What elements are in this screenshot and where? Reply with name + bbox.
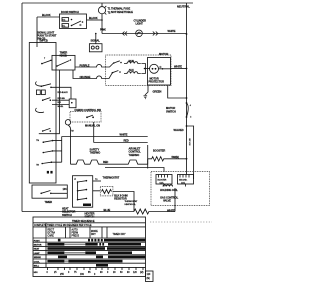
svg-text:NEUTRAL: NEUTRAL <box>177 5 190 9</box>
svg-text:TIMER: TIMER <box>45 200 53 204</box>
svg-text:L1: L1 <box>74 179 76 181</box>
svg-text:HOLDING COIL: HOLDING COIL <box>160 188 178 192</box>
svg-text:WHITE: WHITE <box>168 29 176 33</box>
svg-text:THERMO: THERMO <box>90 151 101 155</box>
svg-text:BELL: BELL <box>34 266 40 268</box>
svg-text:SECOND.: SECOND. <box>179 180 188 182</box>
svg-text:LAMP: LAMP <box>34 252 41 255</box>
svg-text:MOTOR: MOTOR <box>166 106 175 110</box>
svg-text:HEATING EL.: HEATING EL. <box>125 203 137 206</box>
svg-text:RED-WH: RED-WH <box>58 98 66 100</box>
svg-text:MOTOR: MOTOR <box>159 52 168 56</box>
svg-text:COIL: COIL <box>181 182 185 184</box>
svg-text:(M): (M) <box>147 278 151 280</box>
svg-text:CARE: CARE <box>48 235 55 238</box>
svg-text:VALVE: VALVE <box>163 199 171 203</box>
svg-text:RED: RED <box>103 160 108 164</box>
svg-text:C: C <box>80 23 82 27</box>
svg-text:DRY: DRY <box>91 234 96 236</box>
svg-text:TIMED DRY: TIMED DRY <box>113 233 127 236</box>
svg-text:AUTO: AUTO <box>72 229 78 232</box>
svg-text:BLACK: BLACK <box>42 13 51 17</box>
svg-text:N.C.: N.C. <box>62 26 66 28</box>
svg-text:GREEN: GREEN <box>153 90 162 94</box>
svg-text:SWITCH: SWITCH <box>85 215 95 219</box>
svg-text:BLACK: BLACK <box>89 16 98 20</box>
svg-text:TM: TM <box>71 131 74 133</box>
svg-text:50#(B): 50#(B) <box>172 155 180 159</box>
svg-text:BOOSTER: BOOSTER <box>153 149 165 153</box>
svg-text:COMPLETE TIMER CYCLE 360 DEGRE: COMPLETE TIMER CYCLE 360 DEGREES PER CYC… <box>34 225 92 227</box>
svg-text:HEAT: HEAT <box>34 248 40 251</box>
svg-text:N.O.: N.O. <box>62 20 66 22</box>
svg-text:SENSE: SENSE <box>34 257 42 259</box>
svg-text:THERMO: THERMO <box>129 153 140 157</box>
svg-text:SWITCH: SWITCH <box>166 110 176 114</box>
svg-text:(M): (M) <box>140 272 144 274</box>
svg-text:REG'T: REG'T <box>48 230 55 232</box>
svg-text:104: 104 <box>63 187 68 191</box>
svg-text:PURPLE: PURPLE <box>80 64 90 68</box>
svg-text:MIN: MIN <box>34 272 38 274</box>
svg-text:WHITE: WHITE <box>167 209 175 213</box>
svg-text:BOOSTER: BOOSTER <box>158 180 167 182</box>
svg-text:RED: RED <box>124 139 129 143</box>
svg-text:THERMOSTAT: THERMOSTAT <box>125 200 139 203</box>
svg-text:SIGNAL: SIGNAL <box>91 39 101 43</box>
svg-text:3: 3 <box>190 117 191 119</box>
svg-text:NOT RESETTABLE: NOT RESETTABLE <box>111 10 133 14</box>
svg-text:EXTRA: EXTRA <box>48 232 56 235</box>
svg-text:4: 4 <box>190 105 191 107</box>
svg-text:THERMOSTAT: THERMOSTAT <box>103 175 120 179</box>
svg-text:MANUAL ON: MANUAL ON <box>85 124 100 128</box>
svg-text:WHITE: WHITE <box>120 132 128 136</box>
svg-text:SW-CB: SW-CB <box>39 39 47 43</box>
svg-text:PUSH: PUSH <box>34 240 40 242</box>
svg-text:SWITCH: SWITCH <box>62 213 72 217</box>
svg-text:BLUE: BLUE <box>104 208 111 212</box>
svg-text:WH-RED: WH-RED <box>174 128 184 132</box>
svg-text:COOL: COOL <box>34 261 41 263</box>
svg-text:WH-BL: WH-BL <box>58 106 64 108</box>
svg-text:LIGHT: LIGHT <box>136 22 144 26</box>
svg-text:TIMER SEQUENCE: TIMER SEQUENCE <box>72 220 95 223</box>
svg-text:DOOR SWITCH: DOOR SWITCH <box>61 10 79 14</box>
svg-text:MORE: MORE <box>91 231 98 233</box>
svg-text:PROTECTOR: PROTECTOR <box>149 80 165 84</box>
svg-text:COIL: COIL <box>160 182 164 184</box>
svg-text:ORANGE: ORANGE <box>80 75 91 79</box>
svg-text:WHITE: WHITE <box>174 65 182 69</box>
svg-text:MOTOR: MOTOR <box>34 245 42 247</box>
svg-text:PERM: PERM <box>72 233 79 235</box>
svg-text:BK 3-18: BK 3-18 <box>188 139 190 146</box>
svg-text:PRESS: PRESS <box>72 236 80 238</box>
svg-text:PINK: PINK <box>100 28 106 32</box>
